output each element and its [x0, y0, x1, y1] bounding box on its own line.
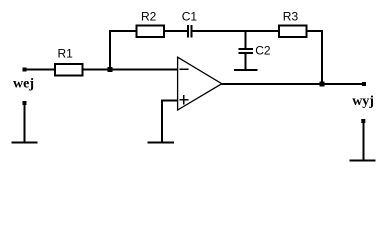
terminal dot wyj ground: [361, 119, 365, 123]
capacitor C1: [188, 25, 192, 38]
wire corner down to output net: [321, 30, 323, 84]
svg-text:wej: wej: [13, 77, 34, 92]
wire node A up to feedback rail: [109, 30, 111, 70]
wire R1 to node A: [83, 69, 111, 71]
wire node A to op-amp inverting input: [110, 69, 178, 71]
svg-text:C2: C2: [255, 44, 271, 58]
resistor R3: [279, 26, 307, 38]
wire noninverting input down to ground: [161, 100, 163, 144]
svg-text:C1: C1: [182, 10, 198, 24]
svg-text:R2: R2: [141, 10, 157, 24]
wire R3 to corner: [307, 30, 323, 32]
wire input to R1: [24, 69, 54, 71]
wire wyj ground stub: [362, 121, 364, 161]
wire op-amp noninverting input: [162, 100, 178, 102]
terminal dot wej ground: [23, 101, 27, 105]
terminal dot wej: [23, 68, 27, 72]
capacitor C2: [239, 49, 254, 53]
wire C2 to ground: [245, 54, 247, 71]
resistor R1: [55, 64, 83, 76]
ground bar wyj: [350, 160, 376, 162]
ground bar op-amp: [147, 142, 174, 144]
svg-text:R3: R3: [283, 10, 299, 24]
terminal dot wyj: [362, 82, 366, 86]
svg-text:wyj: wyj: [352, 94, 374, 109]
wire wej ground stub: [24, 103, 26, 143]
wire R2 to C1: [164, 30, 187, 32]
resistor R2: [137, 26, 165, 38]
ground bar C2: [234, 69, 258, 71]
wire feedback rail to R2: [109, 30, 137, 32]
op-amp U1: [178, 57, 222, 110]
wire C1 to R3: [193, 30, 280, 32]
node A junction dot: [108, 67, 113, 72]
wire op-amp output: [221, 83, 364, 85]
ground bar wej: [11, 142, 37, 144]
svg-text:R1: R1: [58, 47, 74, 61]
junction dot output / R3: [320, 82, 325, 87]
wire C2 tap down: [245, 31, 247, 49]
